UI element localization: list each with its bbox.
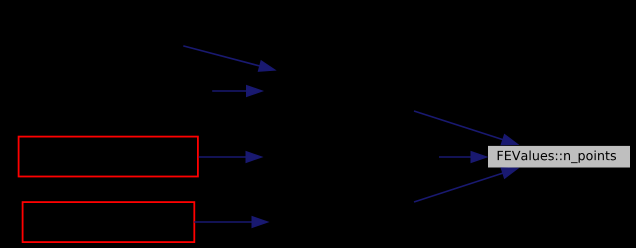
wire: edge from red node 2 bbox=[194, 217, 268, 228]
wire: edge into FEValues::n_points from above-left bbox=[414, 111, 518, 145]
wire: edge into FEValues::n_points from below-left bbox=[414, 168, 518, 202]
wire: horizontal edge into FEValues::n_points bbox=[439, 152, 487, 163]
node FEValues::n_points (current, gray) bbox=[488, 145, 631, 168]
wire: edge from hidden caller to hidden mid node (diagonal top) bbox=[183, 46, 275, 71]
node (red, truncated caller 2) bbox=[23, 202, 195, 242]
wire: short horizontal edge into hidden mid node bbox=[212, 86, 262, 97]
node (red, truncated caller 1) bbox=[19, 137, 198, 177]
wire: edge from red node 1 bbox=[199, 152, 262, 163]
